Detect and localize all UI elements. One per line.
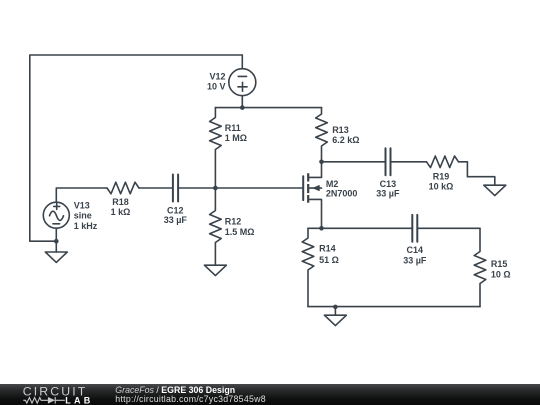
- svg-text:33 µF: 33 µF: [164, 215, 188, 225]
- svg-text:2N7000: 2N7000: [326, 188, 358, 198]
- svg-text:1.5 MΩ: 1.5 MΩ: [225, 227, 255, 237]
- wire C13 to R19: [391, 161, 427, 163]
- resistor R18: [107, 182, 139, 194]
- node source: [319, 226, 324, 231]
- svg-text:1 kHz: 1 kHz: [74, 221, 98, 231]
- voltage source V13 (sine): [43, 202, 69, 228]
- svg-text:R15: R15: [491, 259, 508, 269]
- capacitor C12: [173, 175, 178, 202]
- voltage source V12: [229, 69, 256, 96]
- svg-text:6.2 kΩ: 6.2 kΩ: [332, 135, 359, 145]
- svg-text:C13: C13: [380, 179, 397, 189]
- ground (bottom rail): [324, 315, 346, 325]
- node gate: [213, 186, 218, 191]
- node supply rail: [240, 105, 245, 110]
- resistor R11: [210, 108, 222, 188]
- node V13 bottom: [54, 239, 59, 244]
- svg-text:LAB: LAB: [65, 395, 93, 405]
- wire R19 to ground: [459, 162, 495, 185]
- svg-text:R14: R14: [319, 244, 336, 254]
- svg-text:10 kΩ: 10 kΩ: [429, 181, 454, 191]
- resistor R15: [474, 228, 486, 306]
- wire V12 bottom lead to supply rail: [241, 96, 243, 108]
- svg-text:R12: R12: [225, 217, 242, 227]
- svg-text:sine: sine: [74, 211, 92, 221]
- capacitor C13: [386, 148, 391, 175]
- svg-text:51 Ω: 51 Ω: [319, 255, 339, 265]
- svg-text:33 µF: 33 µF: [376, 189, 400, 199]
- wire source node to C14: [322, 227, 413, 229]
- wire bottom ground stub: [334, 307, 336, 315]
- svg-text:R19: R19: [433, 171, 450, 181]
- wire source node to R14: [308, 227, 322, 229]
- ground (V13): [45, 252, 67, 262]
- svg-text:V13: V13: [74, 200, 90, 210]
- wire V12 top lead: [241, 55, 243, 69]
- capacitor C14: [412, 215, 417, 242]
- wire supply rail: [215, 107, 321, 109]
- wire V13 bottom lead: [55, 228, 57, 252]
- resistor R13: [316, 108, 328, 162]
- svg-text:10 V: 10 V: [207, 81, 226, 91]
- svg-text:1 MΩ: 1 MΩ: [225, 133, 247, 143]
- ground (R19): [484, 185, 506, 195]
- node bottom ground: [333, 305, 338, 310]
- footer bar: [0, 384, 540, 405]
- wire drain node to C13: [322, 161, 386, 163]
- svg-text:33 µF: 33 µF: [403, 255, 427, 265]
- svg-text:R11: R11: [225, 123, 241, 133]
- wire C14 to R15: [417, 227, 480, 229]
- svg-text:C14: C14: [407, 245, 424, 255]
- wire V13 top lead to R18: [56, 188, 107, 202]
- svg-text:V12: V12: [209, 72, 225, 82]
- svg-text:R13: R13: [332, 125, 349, 135]
- svg-text:R18: R18: [112, 197, 129, 207]
- svg-text:M2: M2: [326, 179, 339, 189]
- svg-text:http://circuitlab.com/c7yc3d78: http://circuitlab.com/c7yc3d78545w8: [115, 394, 266, 404]
- svg-text:10 Ω: 10 Ω: [491, 270, 511, 280]
- resistor R14: [302, 228, 314, 306]
- svg-text:C12: C12: [167, 205, 184, 215]
- transistor M2 (NMOS 2N7000): [303, 162, 321, 229]
- CircuitLab logo: resistor + diode glyph: [23, 397, 65, 404]
- svg-text:1 kΩ: 1 kΩ: [111, 207, 131, 217]
- node drain: [319, 160, 324, 165]
- wire feedback loop from V12 top to V13 bottom node: [30, 55, 243, 241]
- wire R18 to C12: [139, 187, 173, 189]
- resistor R19: [427, 156, 459, 168]
- resistor R12: [210, 188, 222, 265]
- wire C12 to gate node and MOSFET gate: [178, 187, 303, 189]
- ground (R12): [204, 265, 226, 275]
- wire bottom rail R14 to R15: [308, 306, 480, 308]
